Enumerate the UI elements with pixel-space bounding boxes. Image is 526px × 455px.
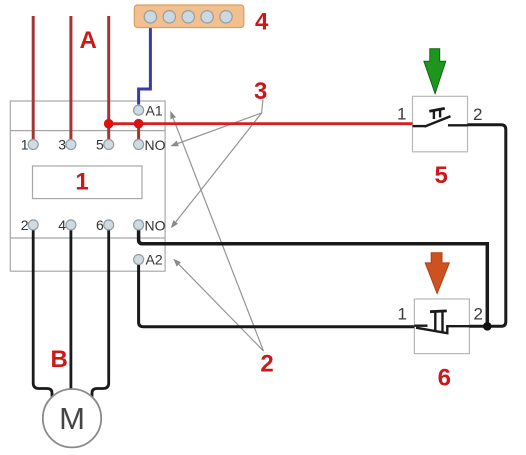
pushbutton 6 box (414, 299, 469, 354)
junction dot black (483, 322, 492, 331)
svg-text:2: 2 (260, 351, 273, 378)
wire red control to button 5 (109, 122, 413, 125)
svg-text:6: 6 (438, 365, 451, 392)
wire phase L2 (69, 16, 72, 141)
pushbutton 5 box (413, 96, 468, 152)
strip terminal 5 (220, 11, 232, 23)
wire red branch junction to NO1 (137, 124, 140, 141)
annotation line 3 to NO1 (178, 100, 263, 144)
svg-text:A: A (80, 27, 97, 54)
contactor label rectangle 1 (33, 166, 143, 199)
svg-text:3: 3 (254, 78, 267, 105)
strip terminal 1 (144, 11, 156, 23)
arrowhead at NO2 (171, 220, 178, 228)
strip terminal 2 (163, 11, 175, 23)
svg-text:6: 6 (96, 217, 104, 233)
svg-text:NO: NO (145, 137, 166, 153)
terminal 1 (28, 140, 38, 150)
terminal 2 (28, 220, 38, 230)
wire blue from terminal strip to A1 (139, 27, 151, 105)
annotation line 3 to NO2 (176, 113, 262, 222)
svg-text:2: 2 (473, 105, 482, 124)
svg-text:4: 4 (255, 9, 269, 36)
svg-text:1: 1 (75, 169, 88, 196)
svg-text:5: 5 (435, 162, 448, 189)
wire NO2 to junction (black) (139, 230, 488, 327)
svg-text:5: 5 (96, 137, 104, 153)
strip terminal 4 (201, 11, 213, 23)
svg-text:2: 2 (21, 217, 29, 233)
terminal NO1 (134, 140, 144, 150)
svg-text:B: B (51, 346, 68, 373)
orange stop arrow (425, 253, 449, 294)
svg-text:4: 4 (58, 217, 66, 233)
motor M circle (43, 389, 101, 447)
arrowhead at NO1 (170, 141, 179, 147)
svg-text:1: 1 (21, 137, 29, 153)
svg-text:1: 1 (397, 105, 406, 124)
terminal A2 (134, 255, 144, 265)
arrowhead at A2 (173, 259, 181, 267)
svg-text:A1: A1 (146, 103, 163, 119)
pushbutton 5 NO contact symbol (413, 108, 468, 126)
wire motor lead from terminal 2 (33, 230, 52, 398)
wire button 5 to junction (468, 125, 506, 326)
svg-text:3: 3 (58, 137, 66, 153)
contactor inner line top (10, 130, 165, 132)
pushbutton 6 NC contact symbol (414, 311, 469, 333)
green start arrow (424, 49, 446, 94)
terminal 6 (104, 220, 114, 230)
wire motor lead from terminal 4 (70, 230, 73, 391)
terminal 5 (104, 140, 114, 150)
junction dot on L3 (104, 119, 114, 129)
annotation line 2 to A2 (179, 264, 264, 351)
wire motor lead from terminal 6 (92, 230, 109, 398)
terminal 3 (66, 140, 76, 150)
svg-text:2: 2 (474, 305, 483, 324)
wire A2 to button 6 (139, 264, 415, 327)
svg-text:1: 1 (398, 305, 407, 324)
terminal NO2 (134, 220, 144, 230)
svg-text:A2: A2 (146, 252, 163, 268)
annotation line 2 to A1 (173, 118, 263, 351)
wire phase L3 (107, 16, 110, 141)
strip terminal 3 (182, 11, 194, 23)
contactor K1 body (10, 101, 165, 271)
contactor inner line bottom (10, 237, 165, 239)
wire phase L1 (32, 16, 35, 141)
svg-text:NO: NO (145, 218, 166, 234)
arrowhead at A1 (170, 111, 176, 120)
terminal 4 (66, 220, 76, 230)
terminal A1 (134, 105, 144, 115)
svg-text:M: M (59, 401, 85, 436)
junction dot above NO1 (134, 119, 144, 129)
terminal strip X1 (134, 5, 244, 28)
